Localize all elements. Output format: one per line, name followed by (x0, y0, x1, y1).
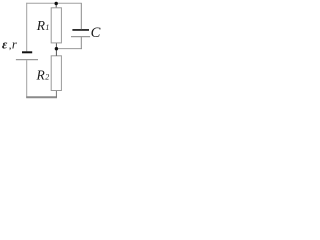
svg-text:r: r (12, 37, 17, 51)
svg-text:R: R (36, 18, 46, 33)
svg-text:ε: ε (2, 36, 8, 51)
svg-text:2: 2 (45, 73, 49, 82)
svg-text:C: C (91, 25, 101, 41)
svg-text:R: R (36, 68, 46, 83)
svg-text:1: 1 (45, 23, 49, 32)
